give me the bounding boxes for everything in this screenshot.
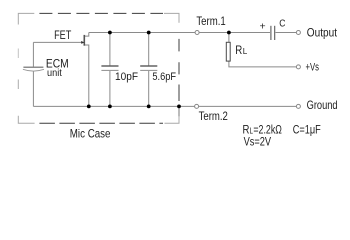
svg-text:Mic Case: Mic Case <box>70 127 111 141</box>
svg-text:+: + <box>260 20 266 32</box>
svg-text:10pF: 10pF <box>115 71 138 83</box>
svg-text:L: L <box>243 47 248 56</box>
svg-text:R: R <box>235 45 242 57</box>
svg-text:FET: FET <box>54 28 72 42</box>
svg-text:Term.2: Term.2 <box>199 110 228 123</box>
svg-text:Ground: Ground <box>307 99 338 112</box>
svg-text:C: C <box>279 19 285 30</box>
svg-text:Term.1: Term.1 <box>196 15 225 28</box>
svg-text:unit: unit <box>47 68 62 79</box>
svg-text:5.6pF: 5.6pF <box>152 71 176 83</box>
svg-text:Output: Output <box>307 26 338 39</box>
svg-text:+Vs: +Vs <box>306 62 320 74</box>
svg-text:C=1μF: C=1μF <box>293 125 321 137</box>
svg-text:Vs=2V: Vs=2V <box>244 134 272 148</box>
